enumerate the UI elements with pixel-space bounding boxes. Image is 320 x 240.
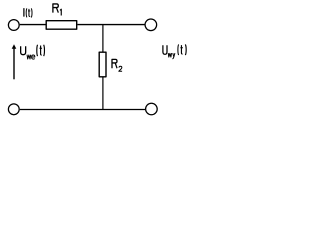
wire: bottom rail bbox=[20, 109, 145, 111]
terminal: input top (open circle) bbox=[8, 20, 19, 31]
label U_wy(t) output voltage bbox=[163, 44, 186, 58]
terminal: output bottom (open circle) bbox=[146, 103, 158, 115]
wire: top rail from R1 to output terminal bbox=[77, 24, 145, 26]
arrow: input voltage polarity (points up) bbox=[12, 44, 17, 79]
label R2 bbox=[112, 59, 122, 71]
wire: branch from R2 down to bottom rail bbox=[102, 78, 104, 111]
label U_we(t) input voltage bbox=[21, 45, 45, 59]
terminal: input bottom (open circle) bbox=[8, 104, 19, 115]
label R1 bbox=[53, 4, 61, 16]
wire: top rail from input terminal to R1 bbox=[20, 24, 46, 26]
wire: branch from top rail down to R2 bbox=[102, 25, 104, 52]
terminal: output top (open circle) bbox=[145, 19, 157, 31]
resistor R1 (box symbol) bbox=[46, 21, 76, 30]
resistor R2 (box symbol) bbox=[99, 52, 106, 77]
label I(t) current bbox=[24, 8, 32, 17]
